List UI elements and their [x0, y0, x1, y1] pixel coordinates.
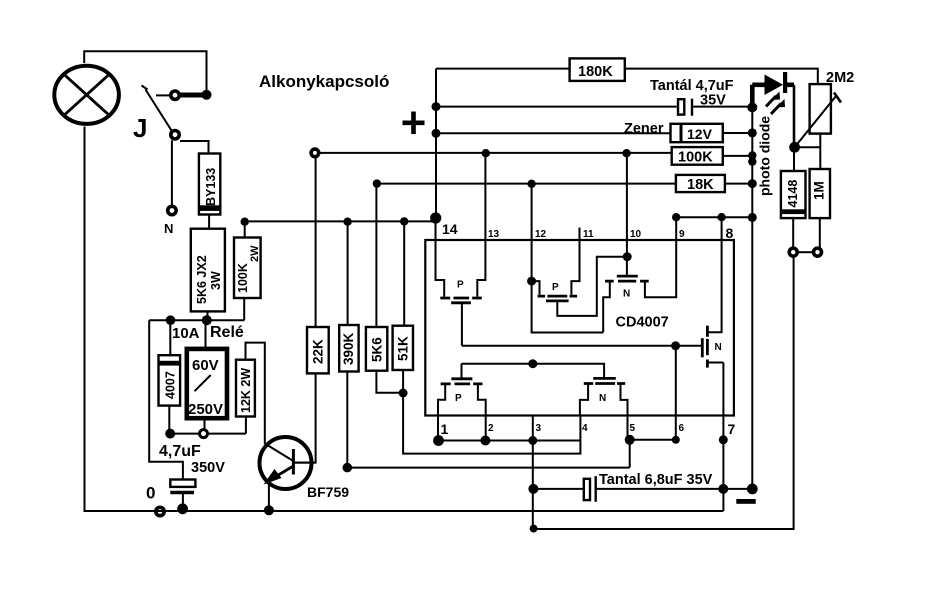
svg-text:14: 14 [442, 221, 458, 237]
svg-text:2W: 2W [249, 245, 261, 262]
svg-text:100K: 100K [678, 150, 713, 166]
svg-text:5: 5 [630, 423, 636, 434]
svg-text:photo diode: photo diode [757, 116, 773, 196]
svg-text:4: 4 [582, 423, 588, 434]
svg-text:J: J [133, 113, 147, 143]
svg-text:12: 12 [535, 229, 547, 240]
svg-text:2M2: 2M2 [826, 70, 854, 86]
svg-text:Relé: Relé [210, 324, 244, 341]
svg-text:N: N [715, 342, 722, 353]
svg-text:0: 0 [146, 484, 155, 503]
svg-text:P: P [455, 393, 462, 404]
svg-text:5K6: 5K6 [370, 337, 385, 362]
svg-text:Alkonykapcsoló: Alkonykapcsoló [259, 72, 389, 91]
svg-text:N: N [623, 289, 630, 300]
svg-text:1M: 1M [812, 181, 827, 200]
svg-text:51K: 51K [396, 336, 411, 361]
svg-text:Zener: Zener [624, 121, 664, 137]
svg-text:5K6 JX2: 5K6 JX2 [195, 255, 209, 304]
svg-text:35V: 35V [700, 93, 726, 109]
svg-text:N: N [599, 393, 606, 404]
svg-text:3W: 3W [209, 271, 223, 290]
svg-text:9: 9 [679, 229, 685, 240]
svg-text:100K: 100K [236, 263, 250, 293]
svg-text:6: 6 [679, 423, 685, 434]
svg-text:N: N [164, 221, 173, 236]
svg-text:12K 2W: 12K 2W [239, 368, 253, 413]
svg-text:60V: 60V [192, 357, 219, 374]
svg-text:350V: 350V [191, 460, 225, 476]
svg-text:3: 3 [536, 423, 542, 434]
svg-text:P: P [552, 282, 559, 293]
svg-text:BY133: BY133 [204, 168, 218, 206]
svg-text:Tantal 6,8uF 35V: Tantal 6,8uF 35V [599, 472, 713, 488]
svg-text:10A: 10A [172, 325, 200, 342]
svg-text:BF759: BF759 [307, 484, 349, 500]
svg-text:180K: 180K [578, 64, 613, 80]
svg-text:10: 10 [630, 229, 642, 240]
svg-text:P: P [457, 280, 464, 291]
svg-text:2: 2 [488, 423, 494, 434]
svg-text:7: 7 [728, 421, 736, 437]
svg-text:18K: 18K [687, 177, 714, 193]
svg-text:4148: 4148 [786, 180, 800, 208]
svg-text:12V: 12V [687, 126, 713, 142]
svg-text:CD4007: CD4007 [616, 315, 669, 331]
svg-text:1: 1 [441, 421, 449, 437]
svg-text:22K: 22K [311, 339, 326, 364]
svg-text:11: 11 [583, 229, 594, 240]
svg-text:4007: 4007 [164, 371, 178, 399]
svg-text:8: 8 [726, 225, 734, 241]
svg-text:390K: 390K [341, 332, 356, 365]
svg-text:250V: 250V [188, 401, 223, 418]
svg-text:13: 13 [488, 229, 500, 240]
svg-text:4,7uF: 4,7uF [159, 443, 201, 460]
